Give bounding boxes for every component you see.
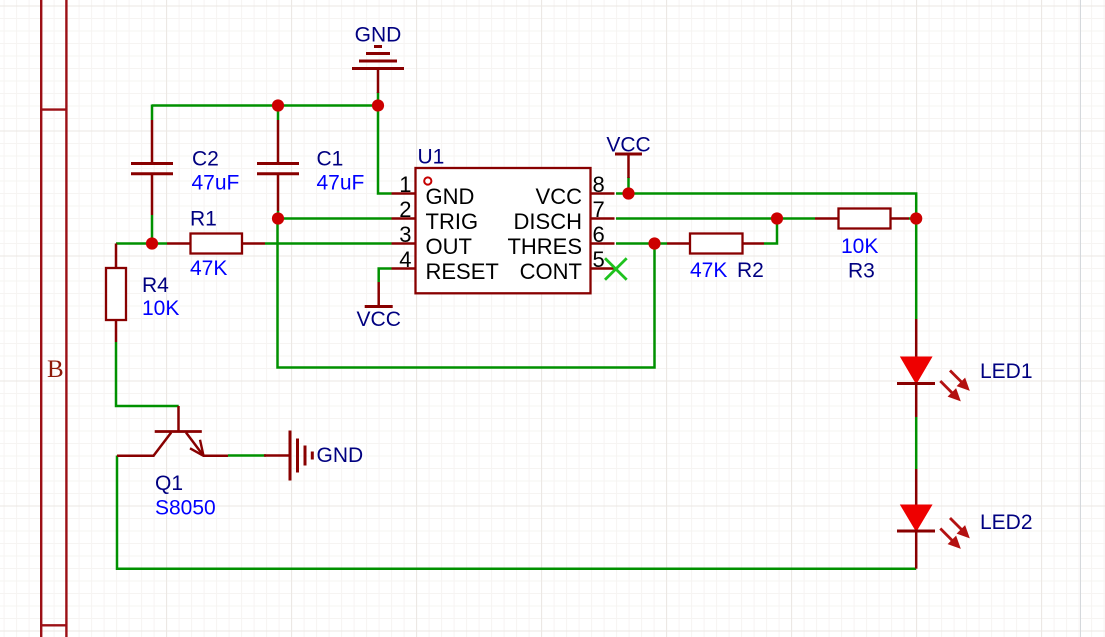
junction node TRIG bbox=[272, 212, 284, 224]
wire LED1 to LED2 bbox=[915, 417, 918, 469]
junction node THRES bbox=[648, 237, 660, 249]
frame border left lines bbox=[41, 0, 66, 637]
wire pin1 GND net bbox=[378, 106, 392, 194]
svg-text:GND: GND bbox=[355, 24, 402, 47]
wire C2 bottom to node A bbox=[151, 215, 154, 244]
svg-text:Q1: Q1 bbox=[155, 472, 183, 495]
sheet edge line bbox=[1080, 0, 1082, 637]
svg-text:RESET: RESET bbox=[426, 259, 499, 284]
wire R2 right to DISCH bbox=[764, 219, 777, 244]
wire RESET to VCC bbox=[379, 269, 392, 283]
IC U1 555 timer bbox=[416, 168, 591, 293]
wire node A to R4 bbox=[116, 242, 152, 245]
no-connect X on pin 5 bbox=[605, 258, 627, 279]
svg-text:LED1: LED1 bbox=[980, 360, 1033, 383]
svg-text:B: B bbox=[47, 356, 64, 383]
svg-text:C1: C1 bbox=[317, 147, 344, 170]
svg-text:S8050: S8050 bbox=[155, 497, 216, 520]
U1 pin 5 stub bbox=[591, 267, 615, 270]
wire THRES bbox=[616, 242, 667, 245]
power symbol VCC top bbox=[615, 154, 642, 178]
wire R1 right to OUT bbox=[265, 242, 392, 245]
svg-text:4: 4 bbox=[399, 247, 411, 272]
svg-text:VCC: VCC bbox=[536, 184, 583, 209]
svg-text:VCC: VCC bbox=[606, 134, 650, 157]
svg-text:R1: R1 bbox=[190, 208, 217, 231]
svg-text:TRIG: TRIG bbox=[426, 209, 479, 234]
wire R4 bottom to Q1 base bbox=[116, 342, 179, 406]
svg-text:47uF: 47uF bbox=[317, 172, 365, 195]
wire GND stem to bus bbox=[377, 92, 380, 106]
wire C1 top stub bbox=[277, 105, 280, 121]
svg-text:47K: 47K bbox=[690, 259, 727, 282]
wire TRIG-THRES loop bbox=[278, 219, 655, 368]
U1 pin 7 stub bbox=[591, 217, 615, 220]
capacitor C2 bbox=[131, 120, 173, 215]
junction node top GND bbox=[372, 99, 384, 111]
wire VCC top stem bbox=[627, 177, 630, 194]
junction node DISCH R2 R3 bbox=[771, 212, 783, 224]
wire VCC net pin8 bbox=[616, 194, 916, 320]
LED2 bbox=[897, 469, 935, 569]
svg-text:C2: C2 bbox=[192, 147, 219, 170]
junction node VCC pin8 bbox=[622, 187, 634, 199]
resistor R3 bbox=[815, 209, 909, 229]
svg-text:GND: GND bbox=[317, 444, 364, 467]
ground symbol top GND bbox=[352, 47, 404, 94]
svg-text:U1: U1 bbox=[418, 146, 445, 169]
svg-text:DISCH: DISCH bbox=[514, 209, 582, 234]
junction node top C1 bbox=[272, 99, 284, 111]
svg-text:R2: R2 bbox=[737, 259, 764, 282]
ground symbol at Q1 emitter bbox=[264, 431, 312, 481]
svg-text:47K: 47K bbox=[190, 257, 227, 280]
LED1 bbox=[897, 319, 935, 417]
resistor R4 bbox=[106, 244, 126, 343]
wire Q1 emitter to GND bbox=[228, 454, 266, 457]
U1 pin 2 stub bbox=[392, 217, 416, 220]
transistor Q1 bbox=[117, 406, 228, 456]
U1 pin 4 stub bbox=[392, 267, 416, 270]
junction node A bbox=[146, 237, 158, 249]
wire top bus bbox=[152, 104, 378, 107]
svg-text:GND: GND bbox=[426, 184, 475, 209]
junction node R3 LED bbox=[910, 212, 922, 224]
svg-text:10K: 10K bbox=[841, 235, 878, 258]
resistor R2 bbox=[667, 234, 764, 254]
wire DISCH to R3 bbox=[777, 217, 815, 220]
svg-text:R4: R4 bbox=[142, 274, 169, 297]
svg-text:5: 5 bbox=[593, 247, 605, 272]
wire TRIG bbox=[278, 217, 392, 220]
svg-text:7: 7 bbox=[593, 197, 605, 222]
wire C1 bottom to TRIG node bbox=[277, 211, 280, 219]
U1 pin 8 stub bbox=[591, 192, 615, 195]
power symbol VCC bottom bbox=[365, 282, 393, 307]
svg-text:OUT: OUT bbox=[426, 234, 472, 259]
svg-text:CONT: CONT bbox=[520, 259, 582, 284]
svg-text:2: 2 bbox=[399, 197, 411, 222]
svg-text:VCC: VCC bbox=[357, 308, 401, 331]
svg-text:47uF: 47uF bbox=[192, 172, 240, 195]
wire Q1 collector to bottom bus bbox=[117, 456, 916, 569]
svg-text:3: 3 bbox=[399, 222, 411, 247]
svg-text:R3: R3 bbox=[848, 260, 875, 283]
wire DISCH bbox=[616, 217, 777, 220]
U1 pin 3 stub bbox=[392, 242, 416, 245]
U1 pin 1 stub bbox=[392, 192, 416, 195]
svg-text:8: 8 bbox=[593, 172, 605, 197]
LED1 emission arrows bbox=[940, 371, 969, 401]
wire C2 top stub bbox=[151, 105, 154, 121]
wire R3 right bbox=[909, 217, 916, 220]
svg-text:10K: 10K bbox=[142, 297, 179, 320]
svg-text:LED2: LED2 bbox=[980, 511, 1033, 534]
LED2 emission arrows bbox=[940, 518, 969, 548]
capacitor C1 bbox=[257, 120, 299, 211]
U1 pin 6 stub bbox=[591, 242, 615, 245]
resistor R1 bbox=[167, 234, 265, 254]
svg-text:6: 6 bbox=[593, 222, 605, 247]
svg-text:1: 1 bbox=[399, 172, 411, 197]
wire R1 left bbox=[152, 242, 167, 245]
svg-text:THRES: THRES bbox=[507, 234, 582, 259]
